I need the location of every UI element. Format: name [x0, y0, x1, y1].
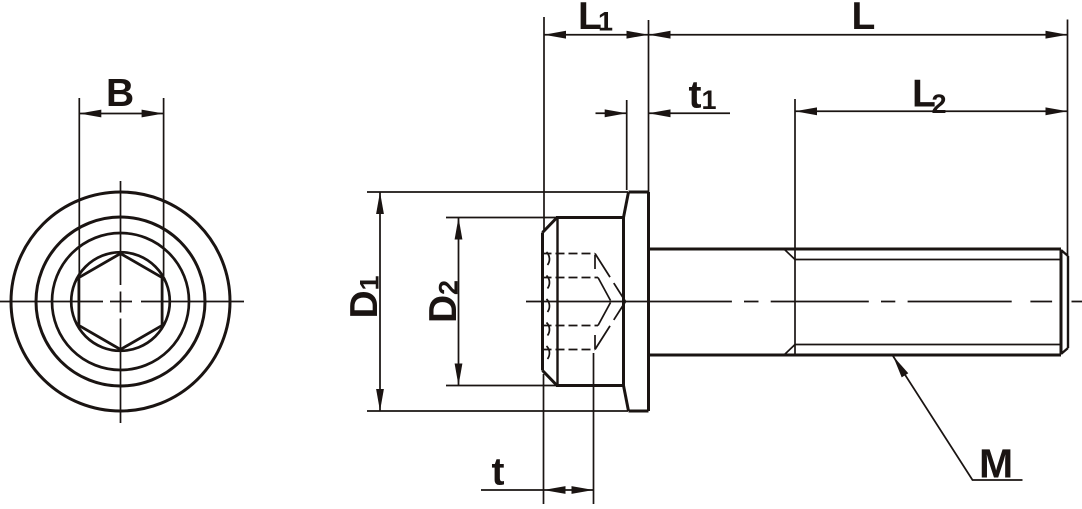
- dimension D1: top extension line: [367, 191, 628, 193]
- svg-text:t: t: [689, 74, 702, 117]
- dimension t1: right dimension line with arrow: [649, 112, 731, 114]
- dimension t: dimension line with arrows: [544, 489, 594, 491]
- side view: hex socket hidden line bottom corner: [543, 349, 596, 351]
- side view: flange left face: [622, 218, 625, 386]
- side view: flange bottom edge: [629, 410, 649, 413]
- side view: shank top line: [649, 248, 1062, 251]
- side view: thread start line: [794, 249, 796, 355]
- thread callout M: arrowhead: [893, 356, 908, 377]
- dimension L2: left extension line (thread start extended): [794, 99, 796, 249]
- side view: socket inner cone lower hidden line: [598, 303, 611, 326]
- svg-text:1: 1: [355, 275, 385, 290]
- side view: thread minor diameter top line: [795, 259, 1061, 261]
- side view: flange right face: [647, 192, 650, 411]
- dimension D1: label: [343, 275, 386, 318]
- dimension t1: left extension line: [626, 100, 628, 190]
- dimension D2: bottom extension line: [446, 385, 557, 387]
- dimension D1: bottom extension line: [367, 410, 628, 412]
- side view: head top edge: [556, 216, 624, 219]
- side view: socket bottom vertical hidden edge upper: [594, 255, 596, 269]
- dimension L1 and L and t1: shared extension line: [648, 20, 650, 192]
- side view: socket entry chamfer arc 4: [547, 323, 550, 336]
- front view: horizontal centerline: [0, 301, 244, 303]
- dimension t1: left dimension line with arrow: [596, 112, 627, 114]
- side view: thread end bottom chamfer: [1061, 348, 1068, 354]
- dimension L1: dimension line with arrows: [544, 34, 649, 36]
- svg-text:D: D: [422, 295, 465, 323]
- front view: head outer circle: [36, 217, 205, 386]
- side view: hex socket hidden line top corner: [543, 253, 596, 255]
- svg-text:L: L: [852, 0, 876, 38]
- side view: socket entry chamfer arc 3: [547, 299, 550, 312]
- dimension D2: top extension line: [446, 217, 557, 219]
- dimension D1: dimension line with arrows: [379, 192, 381, 411]
- side view: thread runout bottom diagonal: [784, 345, 795, 356]
- side view: flange top slope: [624, 192, 629, 218]
- dimension L1: left extension line: [543, 17, 545, 232]
- side view: shank bottom line: [649, 354, 1062, 357]
- side view: head chamfer tangent line: [556, 218, 558, 385]
- side view: thread end chamfer-start edge line: [1060, 250, 1063, 354]
- side view: head left face: [541, 233, 544, 371]
- side view: hex socket hidden line upper flat: [543, 277, 599, 279]
- dimension B: extension lines: [79, 98, 163, 276]
- side view: hex socket hidden line lower flat: [543, 325, 599, 327]
- front view: flange outer circle: [11, 192, 230, 411]
- side view: head top chamfer: [543, 218, 558, 233]
- svg-text:1: 1: [598, 7, 613, 37]
- front view: hex socket hexagon: [79, 254, 162, 350]
- svg-text:1: 1: [702, 85, 717, 115]
- dimension B: dimension line with arrows: [79, 113, 163, 115]
- side view: head bottom edge: [556, 384, 624, 387]
- side view: socket cone lower hidden line: [595, 302, 626, 350]
- side view: head bottom chamfer: [543, 371, 558, 386]
- side view: socket cone upper hidden line: [595, 254, 626, 302]
- dimension D2: label: [422, 280, 465, 323]
- svg-text:t: t: [492, 451, 505, 494]
- side view: socket entry chamfer arc 1: [547, 252, 550, 265]
- dimension t: right extension line: [593, 353, 595, 504]
- svg-text:2: 2: [434, 280, 464, 295]
- svg-text:2: 2: [932, 89, 947, 119]
- side view: socket bottom vertical hidden edge lower: [594, 335, 596, 349]
- dimension L: dimension line with arrows: [649, 34, 1068, 36]
- thread callout M: leader line: [893, 356, 1023, 480]
- side view: thread runout top diagonal: [784, 249, 795, 260]
- side view: thread end top chamfer: [1061, 250, 1068, 256]
- side view: horizontal centerline: [526, 301, 1082, 303]
- front view: socket entry chamfer circle: [71, 252, 170, 351]
- svg-text:B: B: [106, 72, 134, 115]
- svg-text:D: D: [343, 290, 386, 318]
- side view: socket entry chamfer arc 5: [547, 346, 550, 359]
- svg-text:M: M: [979, 441, 1013, 487]
- dimension D2: dimension line with arrows: [458, 218, 460, 386]
- side view: socket entry chamfer arc 2: [547, 276, 550, 289]
- side view: socket inner cone upper hidden line: [598, 278, 611, 301]
- side view: thread end face: [1067, 256, 1069, 348]
- front view: vertical centerline: [120, 181, 122, 423]
- dimension L2: dimension line with arrows: [795, 110, 1068, 112]
- side view: thread minor diameter bottom line: [795, 344, 1061, 346]
- dimension t: lead line under label: [481, 489, 544, 491]
- side view: flange bottom slope: [624, 386, 629, 412]
- front view: head face chamfer circle: [52, 233, 189, 370]
- side view: flange top edge: [629, 191, 649, 194]
- dimension t: left extension line: [543, 374, 545, 504]
- dimension L: right extension line: [1067, 20, 1069, 257]
